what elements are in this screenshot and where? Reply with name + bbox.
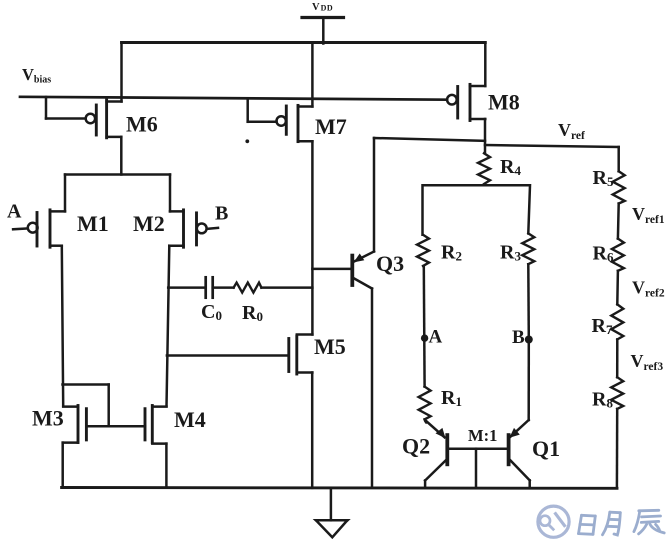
- svg-text:Q3: Q3: [376, 251, 404, 276]
- svg-text:R4: R4: [500, 156, 521, 178]
- svg-text:B: B: [215, 203, 228, 225]
- svg-text:R7: R7: [592, 315, 613, 337]
- resistor R4: [478, 153, 490, 184]
- svg-text:VDD: VDD: [312, 2, 333, 13]
- wire R1 to Q2 emitter: [425, 419, 427, 422]
- wire Vbias rail: [20, 97, 447, 100]
- wire M3 source: [61, 443, 64, 488]
- node B: [525, 336, 533, 344]
- watermark character 日: [579, 515, 596, 534]
- wire top VDD rail: [122, 41, 486, 44]
- wire Q3 emitter up: [373, 138, 376, 252]
- wire Vref to R5: [617, 147, 620, 171]
- svg-text:M3: M3: [32, 406, 64, 431]
- wire M3 diode link horizontal: [63, 383, 109, 386]
- wire R3 to node B: [527, 264, 530, 339]
- svg-text:M6: M6: [126, 112, 158, 137]
- wire input A lead: [13, 227, 28, 230]
- svg-text:M4: M4: [174, 407, 206, 432]
- wire M4 source: [165, 444, 168, 488]
- capacitor C0: [206, 277, 213, 297]
- resistor R8: [611, 377, 623, 409]
- resistor R3: [522, 233, 534, 264]
- wire R7 to R8 / Vref3 tap: [616, 339, 619, 377]
- wire M7 drain column: [311, 141, 314, 334]
- wire M7 source: [311, 43, 314, 107]
- watermark character 月: [603, 512, 621, 535]
- wire Q1-Q2 base link: [447, 447, 508, 450]
- svg-text:R0: R0: [242, 302, 263, 324]
- power VDD symbol: [302, 18, 344, 44]
- svg-text:M1: M1: [77, 211, 109, 236]
- wire M6 drain: [120, 137, 123, 175]
- wire M8 drain to Vref node: [484, 119, 487, 153]
- resistor R1: [419, 387, 431, 420]
- wire R6 to R7 / Vref2 tap: [616, 271, 619, 305]
- wire M2 drain: [167, 246, 170, 407]
- svg-text:B: B: [512, 327, 525, 348]
- svg-text:R5: R5: [593, 167, 614, 189]
- transistor Q2: [425, 421, 447, 488]
- svg-text:Vref1: Vref1: [632, 204, 665, 226]
- ground: [316, 488, 348, 537]
- wire diff pair source rail: [65, 173, 170, 176]
- transistor M4: [145, 406, 167, 444]
- stray scan dot: [245, 139, 249, 143]
- resistor R5: [613, 171, 625, 203]
- wire R8 to ground rail: [616, 409, 619, 488]
- wire M3 diode link vertical: [107, 385, 110, 427]
- resistor R2: [417, 235, 429, 266]
- transistor M5: [167, 335, 313, 375]
- wire M3-M4 gate link: [86, 425, 145, 428]
- resistor R0: [234, 283, 262, 293]
- svg-text:M2: M2: [133, 211, 165, 236]
- wire input B lead: [207, 228, 218, 229]
- watermark logo: [538, 506, 569, 537]
- svg-text:R3: R3: [500, 242, 521, 264]
- wire node B to Q1 emitter: [527, 340, 530, 421]
- transistor Q1: [509, 420, 530, 488]
- wire R0 to M7 drain column: [261, 286, 312, 289]
- transistor M2: [169, 175, 206, 248]
- node A: [421, 334, 428, 341]
- svg-text:M8: M8: [488, 90, 520, 115]
- resistor R7: [611, 304, 623, 339]
- svg-text:R8: R8: [592, 389, 613, 411]
- wire Q3 emitter to M8 drain: [374, 138, 485, 141]
- svg-text:A: A: [7, 201, 22, 223]
- wire R5 to R6 / Vref1 tap: [617, 204, 620, 239]
- wire Q3 collector down: [371, 289, 374, 488]
- svg-text:R2: R2: [441, 242, 462, 264]
- wire M5 source: [311, 373, 314, 488]
- svg-text:M5: M5: [314, 334, 346, 359]
- wire R2 to node A: [423, 266, 426, 387]
- svg-text:M7: M7: [315, 114, 347, 139]
- transistor M8: [447, 43, 485, 121]
- svg-text:R6: R6: [593, 243, 614, 265]
- wire base tap to rail: [475, 449, 478, 488]
- watermark character 辰: [634, 510, 664, 534]
- transistor Q3: [312, 252, 374, 289]
- svg-text:Vref3: Vref3: [631, 351, 664, 373]
- wire R2-R3 bracket: [423, 185, 531, 235]
- transistor M6: [46, 43, 122, 138]
- svg-text:R1: R1: [441, 387, 462, 409]
- wire ground rail: [62, 486, 617, 490]
- wire M2 drain to C0: [168, 286, 206, 289]
- svg-text:Q1: Q1: [532, 436, 560, 461]
- transistor M7: [248, 99, 313, 142]
- svg-text:Vref: Vref: [558, 120, 585, 142]
- svg-text:A: A: [429, 327, 443, 348]
- resistor R6: [612, 239, 624, 271]
- svg-text:M:1: M:1: [468, 426, 497, 445]
- transistor M3: [63, 406, 87, 443]
- wire M1 drain: [62, 246, 63, 407]
- wire Vref line: [485, 145, 619, 147]
- svg-text:Vbias: Vbias: [22, 65, 51, 86]
- transistor M1: [28, 175, 65, 248]
- wire C0 to R0: [213, 286, 234, 289]
- svg-text:Q2: Q2: [402, 434, 430, 459]
- svg-text:C0: C0: [201, 301, 222, 323]
- svg-text:Vref2: Vref2: [632, 278, 665, 300]
